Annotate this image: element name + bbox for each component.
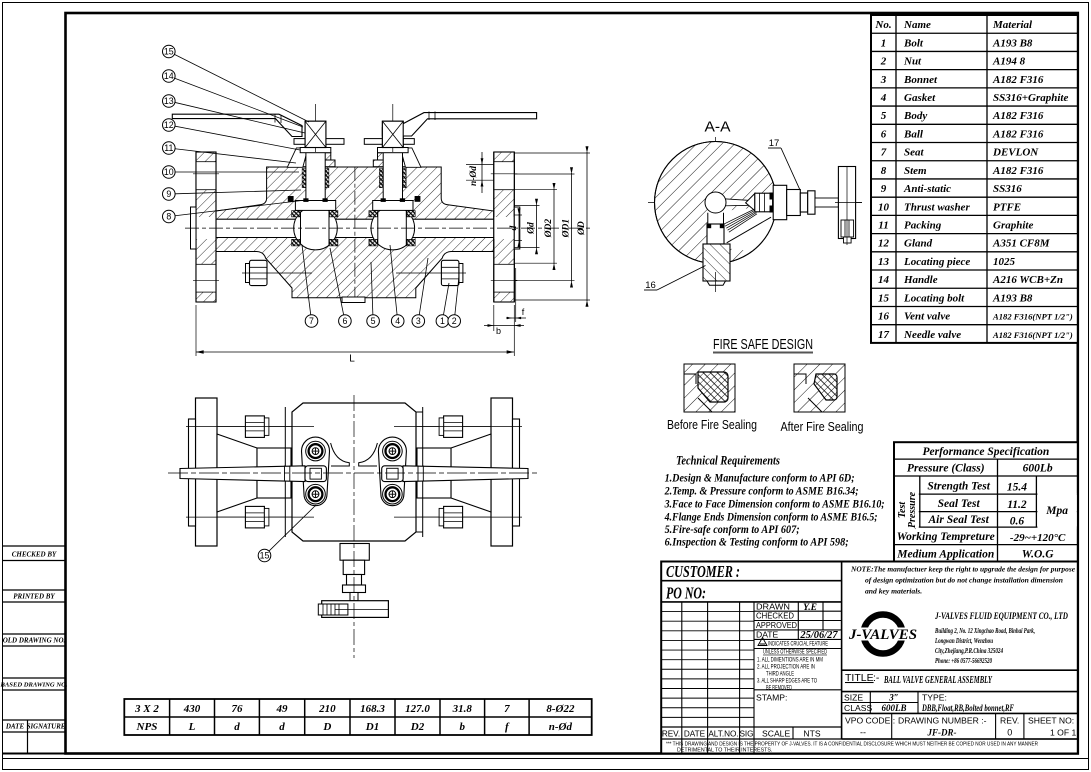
svg-text:8: 8 [881, 165, 887, 177]
svg-text::-: :- [873, 672, 880, 684]
svg-text:49: 49 [276, 703, 289, 715]
svg-text:11: 11 [164, 143, 173, 153]
svg-text:After Fire Sealing: After Fire Sealing [781, 420, 864, 434]
svg-text:3″: 3″ [888, 692, 899, 702]
svg-text:A193 B8: A193 B8 [992, 292, 1033, 304]
svg-text:INDICATES CRUCIAL FEATURE: INDICATES CRUCIAL FEATURE [768, 640, 828, 647]
svg-text:Thrust washer: Thrust washer [904, 201, 970, 213]
svg-text:NTS: NTS [803, 729, 820, 739]
svg-text:SCALE: SCALE [762, 729, 790, 739]
svg-text:Gland: Gland [904, 238, 933, 250]
svg-text:3: 3 [880, 74, 887, 86]
svg-text:1. ALL DIMENTIONS ARE IN MM: 1. ALL DIMENTIONS ARE IN MM [757, 657, 823, 663]
svg-text:CHECKED BY: CHECKED BY [12, 551, 57, 559]
svg-text:12: 12 [878, 238, 890, 250]
svg-text:d: d [279, 721, 285, 733]
svg-text:Anti-static: Anti-static [903, 183, 951, 195]
svg-text:Longwan District, Wenzhou: Longwan District, Wenzhou [934, 636, 993, 645]
svg-text:L: L [349, 354, 355, 365]
svg-text:10: 10 [878, 201, 890, 213]
svg-text:15: 15 [260, 551, 270, 561]
svg-text:-29~+120°C: -29~+120°C [1010, 532, 1066, 544]
svg-text:A182 F316: A182 F316 [992, 74, 1044, 86]
svg-text:Stem: Stem [904, 165, 927, 177]
svg-text:A-A: A-A [705, 119, 731, 136]
svg-text:76: 76 [231, 703, 243, 715]
svg-text:Building 2, No. 12 Xingchao Ro: Building 2, No. 12 Xingchao Road, Binhai… [934, 626, 1035, 635]
svg-text:8-Ø22: 8-Ø22 [546, 703, 575, 715]
svg-text:168.3: 168.3 [360, 703, 385, 715]
svg-text:210: 210 [318, 703, 336, 715]
svg-text:Air Seal Test: Air Seal Test [928, 514, 990, 526]
svg-text:ØD2: ØD2 [544, 219, 554, 239]
svg-text:A351 CF8M: A351 CF8M [992, 238, 1051, 250]
svg-text:Locating piece: Locating piece [903, 256, 970, 268]
svg-text:15.4: 15.4 [1007, 482, 1027, 494]
svg-text:Ball: Ball [903, 128, 924, 140]
svg-text:600Lb: 600Lb [1023, 463, 1053, 475]
svg-text:ØD1: ØD1 [562, 219, 572, 238]
svg-text:Bolt: Bolt [903, 37, 924, 49]
svg-text:SIZE: SIZE [844, 692, 863, 702]
svg-text:2: 2 [452, 316, 457, 326]
svg-text:Bonnet: Bonnet [903, 74, 938, 86]
svg-text:Nut: Nut [903, 56, 922, 68]
svg-text:REV.: REV. [1000, 716, 1019, 726]
svg-text:THIRD ANGLE: THIRD ANGLE [766, 671, 794, 677]
svg-text:16: 16 [645, 280, 656, 291]
svg-text:ALT.NO.: ALT.NO. [708, 730, 738, 739]
svg-text:127.0: 127.0 [405, 703, 430, 715]
svg-text:5: 5 [881, 110, 887, 122]
svg-text:Graphite: Graphite [993, 219, 1033, 231]
svg-text:TYPE:: TYPE: [922, 692, 947, 702]
svg-text:31.8: 31.8 [452, 703, 473, 715]
svg-text:2.Temp. & Pressure conform to: 2.Temp. & Pressure conform to ASME B16.3… [664, 483, 859, 497]
svg-text:n-Ød: n-Ød [469, 166, 479, 186]
svg-text:J-VALVES FLUID EQUIPMENT CO.,: J-VALVES FLUID EQUIPMENT CO., LTD [934, 611, 1068, 622]
svg-text:D1: D1 [365, 721, 379, 733]
svg-text:No.: No. [874, 19, 891, 31]
svg-text:14: 14 [164, 71, 174, 81]
svg-text:5: 5 [371, 316, 376, 326]
svg-text:600LB: 600LB [881, 703, 906, 713]
svg-text:Packing: Packing [904, 219, 942, 231]
svg-text:A194 8: A194 8 [992, 56, 1026, 68]
svg-text:TITLE: TITLE [845, 672, 874, 684]
svg-text:BASED DRAWING NO.: BASED DRAWING NO. [0, 682, 68, 689]
svg-text:A182 F316: A182 F316 [992, 165, 1044, 177]
svg-text:10: 10 [164, 167, 174, 177]
svg-text:d: d [509, 225, 519, 230]
svg-text:b: b [496, 326, 501, 336]
svg-text:Medium Application: Medium Application [896, 549, 994, 561]
svg-text:W.O.G: W.O.G [1022, 549, 1054, 561]
svg-text:11: 11 [878, 219, 888, 231]
svg-text:CLASS: CLASS [844, 703, 872, 713]
svg-text:17: 17 [878, 329, 890, 341]
svg-text:7: 7 [309, 316, 314, 326]
svg-text:9: 9 [881, 183, 887, 195]
svg-text:JF-DR-: JF-DR- [927, 728, 957, 738]
svg-text:13: 13 [164, 96, 174, 106]
svg-text:1: 1 [881, 37, 887, 49]
svg-text:Before Fire Sealing: Before Fire Sealing [667, 418, 757, 432]
svg-text:APPROVED: APPROVED [756, 620, 797, 630]
svg-text:d: d [234, 721, 240, 733]
svg-text:SS316: SS316 [993, 183, 1022, 195]
svg-text:PTFE: PTFE [993, 201, 1021, 213]
svg-text:430: 430 [183, 703, 201, 715]
svg-text:Name: Name [903, 19, 931, 31]
svg-text:A182 F316: A182 F316 [992, 110, 1044, 122]
svg-text:7: 7 [881, 147, 887, 159]
svg-text:A182 F316(NPT 1/2"): A182 F316(NPT 1/2") [992, 330, 1073, 340]
svg-text:1.Design & Manufacture conform: 1.Design & Manufacture conform to API 6D… [665, 470, 855, 484]
svg-text:L: L [188, 721, 196, 733]
svg-text:DATE: DATE [684, 730, 706, 739]
svg-text:REV.: REV. [662, 730, 680, 739]
svg-text:DATE: DATE [5, 723, 25, 731]
svg-text:Performance Specification: Performance Specification [922, 446, 1049, 458]
svg-text:A182 F316: A182 F316 [992, 128, 1044, 140]
svg-text:6: 6 [342, 316, 347, 326]
svg-text:VPO CODE :: VPO CODE : [845, 716, 895, 726]
svg-text:2. ALL PROJECTION ARE IN: 2. ALL PROJECTION ARE IN [757, 664, 815, 670]
svg-text:and key materials.: and key materials. [865, 587, 922, 596]
svg-text:8: 8 [166, 212, 171, 222]
svg-text:16: 16 [878, 311, 890, 323]
svg-text:3: 3 [416, 316, 421, 326]
svg-text:DETRIMENTAL TO THEIR INTERESTS: DETRIMENTAL TO THEIR INTERESTS. [677, 748, 772, 754]
svg-text:J-VALVES: J-VALVES [848, 627, 917, 643]
svg-text:of design optimization but do: of design optimization but do not change… [865, 576, 1063, 585]
svg-text:Seat: Seat [904, 147, 925, 159]
svg-text:PRINTED BY: PRINTED BY [13, 593, 55, 601]
svg-text:DATE: DATE [756, 630, 779, 640]
svg-text:Phone: +86 0577-56692520: Phone: +86 0577-56692520 [935, 656, 992, 665]
svg-text:Ød: Ød [527, 222, 537, 235]
svg-text:A193 B8: A193 B8 [992, 37, 1033, 49]
svg-text:4: 4 [880, 92, 887, 104]
svg-text:Mpa: Mpa [1045, 505, 1068, 517]
svg-text:1 OF 1: 1 OF 1 [1050, 728, 1076, 738]
svg-text:n-Ød: n-Ød [549, 721, 573, 733]
svg-text:14: 14 [878, 274, 890, 286]
svg-text:Vent valve: Vent valve [904, 311, 950, 323]
svg-text:DRAWING NUMBER :-: DRAWING NUMBER :- [898, 716, 987, 726]
svg-text:Gasket: Gasket [904, 92, 936, 104]
svg-text:UNLESS OTHERWISE SPECIFIED: UNLESS OTHERWISE SPECIFIED [763, 650, 827, 656]
svg-text:A182 F316(NPT 1/2"): A182 F316(NPT 1/2") [992, 312, 1073, 322]
svg-text:OLD DRAWING NO.: OLD DRAWING NO. [3, 637, 66, 645]
svg-text:15: 15 [878, 292, 890, 304]
svg-text:CUSTOMER :: CUSTOMER : [666, 562, 740, 581]
svg-text:6: 6 [881, 128, 887, 140]
svg-text:1025: 1025 [993, 256, 1016, 268]
svg-text:SHEET NO:: SHEET NO: [1028, 716, 1074, 726]
svg-text:3. ALL SHARP EDGES ARE TO: 3. ALL SHARP EDGES ARE TO [757, 678, 817, 684]
svg-text:Working Tempreture: Working Tempreture [897, 531, 995, 543]
svg-text:NOTE:The manufactuer keep the: NOTE:The manufactuer keep the right to u… [850, 565, 1076, 574]
svg-text:Locating bolt: Locating bolt [903, 292, 965, 304]
svg-text:4: 4 [395, 316, 400, 326]
svg-text:ØD: ØD [577, 221, 587, 236]
svg-text:3 X 2: 3 X 2 [134, 703, 159, 715]
svg-text:Body: Body [903, 110, 927, 122]
svg-text:SIGNATURE: SIGNATURE [27, 724, 66, 731]
svg-text:FIRE SAFE DESIGN: FIRE SAFE DESIGN [713, 337, 813, 353]
svg-text:2: 2 [880, 56, 887, 68]
svg-text:Seal Test: Seal Test [938, 498, 981, 510]
svg-text:Pressure (Class): Pressure (Class) [907, 463, 985, 475]
svg-text:Pressure: Pressure [907, 491, 918, 528]
svg-text:12: 12 [164, 120, 174, 130]
svg-text:BE REMOVED: BE REMOVED [766, 685, 792, 691]
svg-text:1: 1 [440, 316, 445, 326]
svg-text:Technical Requirements: Technical Requirements [676, 454, 780, 468]
svg-text:SIG: SIG [739, 730, 753, 739]
svg-text:11.2: 11.2 [1007, 499, 1027, 511]
svg-text:STAMP:: STAMP: [756, 693, 787, 703]
svg-text:SS316+Graphite: SS316+Graphite [993, 92, 1068, 104]
svg-text:0: 0 [1007, 728, 1012, 738]
svg-text:A216 WCB+Zn: A216 WCB+Zn [992, 274, 1063, 286]
svg-text:DEVLON: DEVLON [992, 147, 1039, 159]
svg-text:Material: Material [992, 19, 1033, 31]
svg-text:PO NO:: PO NO: [665, 584, 706, 603]
svg-text:City,Zhejiang,P.R.China 325024: City,Zhejiang,P.R.China 325024 [935, 646, 1003, 655]
svg-text:Handle: Handle [903, 274, 938, 286]
svg-text:b: b [460, 721, 466, 733]
svg-text:6.Inspection & Testing conform: 6.Inspection & Testing conform to API 59… [665, 535, 849, 549]
svg-text:D: D [322, 721, 331, 733]
svg-text:Needle valve: Needle valve [903, 329, 961, 341]
svg-text:17: 17 [769, 138, 780, 149]
svg-text:NPS: NPS [136, 721, 158, 733]
svg-text:Y.E: Y.E [803, 603, 817, 613]
svg-text:--: -- [860, 728, 866, 738]
svg-text:BALL VALVE GENERAL ASSEMBLY: BALL VALVE GENERAL ASSEMBLY [883, 675, 992, 686]
svg-text:25/06/27: 25/06/27 [799, 630, 838, 641]
svg-text:13: 13 [878, 256, 890, 268]
svg-text:0.6: 0.6 [1010, 516, 1025, 528]
svg-text:Strength Test: Strength Test [927, 481, 990, 493]
svg-text:D2: D2 [410, 721, 425, 733]
svg-text:7: 7 [504, 703, 510, 715]
svg-text:9: 9 [166, 189, 171, 199]
svg-text:15: 15 [164, 47, 174, 57]
svg-text:DBB,Float,RB,Bolted bonnet,RF: DBB,Float,RB,Bolted bonnet,RF [921, 703, 1014, 713]
